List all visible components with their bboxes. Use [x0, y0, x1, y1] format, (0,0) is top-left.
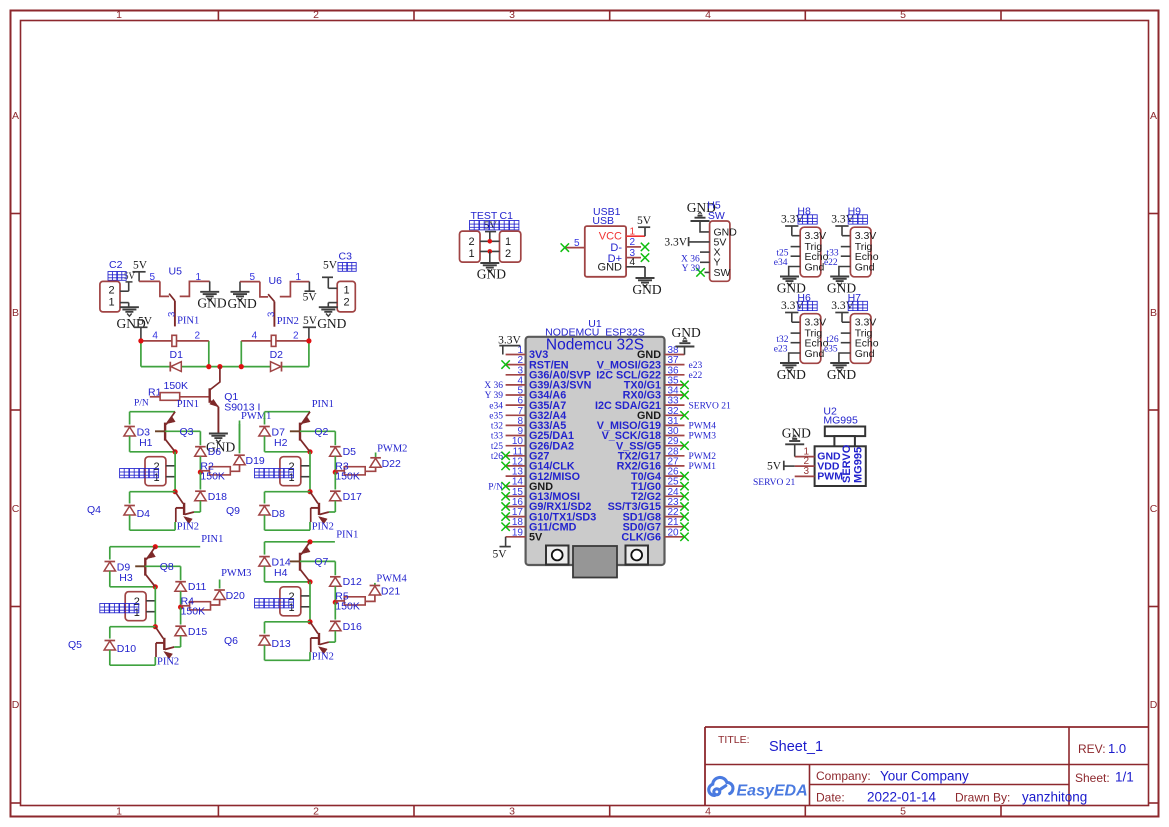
svg-text:e22: e22 — [824, 258, 838, 268]
svg-text:e23: e23 — [774, 345, 788, 355]
svg-text:PWM1: PWM1 — [689, 462, 717, 472]
svg-text:D8: D8 — [272, 508, 286, 520]
svg-text:REV:: REV: — [1078, 742, 1106, 756]
svg-text:D16: D16 — [343, 621, 362, 633]
svg-text:2: 2 — [313, 9, 319, 21]
svg-text:5V: 5V — [303, 292, 318, 304]
svg-text:2022-01-14: 2022-01-14 — [867, 790, 937, 805]
svg-text:GND: GND — [317, 316, 346, 331]
svg-text:Q9: Q9 — [226, 505, 240, 517]
svg-text:1: 1 — [196, 272, 202, 283]
svg-text:Sheet:: Sheet: — [1075, 771, 1110, 785]
svg-text:GND: GND — [197, 296, 226, 311]
svg-text:D15: D15 — [188, 626, 207, 638]
svg-text:D18: D18 — [208, 491, 227, 503]
svg-text:Gnd: Gnd — [855, 261, 875, 273]
svg-text:1: 1 — [505, 236, 511, 248]
svg-text:2: 2 — [293, 331, 299, 342]
svg-text:VCC: VCC — [599, 230, 622, 242]
svg-text:2: 2 — [343, 297, 349, 309]
svg-text:SW: SW — [708, 210, 725, 222]
svg-text:5V: 5V — [124, 271, 136, 281]
svg-text:1/1: 1/1 — [1115, 770, 1134, 785]
svg-text:EasyEDA: EasyEDA — [737, 783, 808, 800]
svg-text:GND: GND — [777, 367, 806, 382]
svg-text:D5: D5 — [343, 446, 357, 458]
svg-text:Y 39: Y 39 — [682, 264, 701, 274]
svg-text:t25: t25 — [776, 248, 788, 258]
svg-text:MG995: MG995 — [853, 447, 865, 483]
svg-text:PIN2: PIN2 — [277, 316, 299, 327]
svg-text:PWM4: PWM4 — [689, 422, 717, 432]
svg-text:PIN1: PIN1 — [336, 529, 358, 540]
svg-text:150K: 150K — [181, 605, 206, 617]
svg-text:B: B — [12, 307, 19, 319]
svg-text:PWM3: PWM3 — [221, 568, 251, 579]
svg-text:PWM4: PWM4 — [376, 574, 407, 585]
svg-text:Gnd: Gnd — [855, 348, 875, 360]
svg-text:C: C — [1150, 503, 1158, 515]
svg-text:t26: t26 — [491, 452, 503, 462]
svg-text:150K: 150K — [335, 600, 360, 612]
svg-text:SERVO 21: SERVO 21 — [753, 478, 796, 488]
svg-text:U6: U6 — [269, 275, 283, 287]
svg-text:SERVO 21: SERVO 21 — [689, 401, 732, 411]
svg-text:e34: e34 — [489, 401, 503, 411]
svg-text:5V: 5V — [133, 259, 148, 271]
svg-text:D1: D1 — [170, 349, 184, 361]
svg-text:PIN2: PIN2 — [312, 652, 334, 663]
svg-text:1: 1 — [343, 285, 349, 297]
svg-text:D6: D6 — [208, 446, 222, 458]
svg-text:5: 5 — [900, 9, 906, 21]
svg-text:t33: t33 — [491, 432, 503, 442]
svg-text:e23: e23 — [689, 361, 703, 371]
svg-text:Q6: Q6 — [224, 635, 238, 647]
svg-text:D: D — [12, 699, 20, 711]
svg-text:PIN2: PIN2 — [312, 522, 334, 533]
svg-text:t26: t26 — [827, 335, 839, 345]
svg-text:4: 4 — [252, 331, 258, 342]
svg-text:U5: U5 — [169, 266, 183, 278]
svg-text:t33: t33 — [827, 248, 839, 258]
svg-text:Q3: Q3 — [180, 426, 194, 438]
svg-text:5V: 5V — [492, 549, 507, 561]
svg-text:2: 2 — [505, 248, 511, 260]
svg-text:150K: 150K — [164, 380, 189, 392]
svg-text:t32: t32 — [491, 422, 503, 432]
svg-text:5V: 5V — [767, 460, 782, 472]
svg-text:5V: 5V — [637, 215, 652, 227]
svg-text:3.3V: 3.3V — [664, 236, 687, 248]
svg-text:TITLE:: TITLE: — [718, 734, 750, 746]
svg-text:GND: GND — [632, 282, 661, 297]
svg-text:D20: D20 — [226, 590, 245, 602]
svg-text:e22: e22 — [689, 371, 703, 381]
svg-text:H4: H4 — [274, 567, 288, 579]
svg-text:D21: D21 — [381, 586, 400, 598]
svg-text:t32: t32 — [776, 335, 788, 345]
svg-text:SW: SW — [714, 267, 731, 279]
svg-text:1: 1 — [630, 227, 636, 238]
svg-text:D: D — [1150, 699, 1158, 711]
svg-text:PWM2: PWM2 — [377, 444, 407, 455]
svg-text:Y 39: Y 39 — [485, 391, 504, 401]
svg-text:Drawn By:: Drawn By: — [955, 791, 1010, 805]
svg-text:D22: D22 — [382, 458, 401, 470]
svg-text:PWM2: PWM2 — [689, 452, 717, 462]
svg-text:GND: GND — [228, 296, 257, 311]
svg-text:5V: 5V — [138, 316, 153, 328]
svg-text:e35: e35 — [824, 345, 838, 355]
svg-text:3: 3 — [167, 312, 178, 317]
svg-text:5V: 5V — [303, 315, 318, 327]
svg-text:1: 1 — [296, 272, 302, 283]
svg-text:1.0: 1.0 — [1108, 741, 1126, 756]
svg-text:D12: D12 — [343, 576, 362, 588]
svg-text:Q2: Q2 — [314, 426, 328, 438]
svg-text:1: 1 — [116, 9, 122, 21]
svg-text:H1: H1 — [139, 437, 153, 449]
svg-text:Nodemcu 32S: Nodemcu 32S — [546, 337, 644, 354]
svg-text:PIN1: PIN1 — [201, 534, 223, 545]
svg-text:yanzhitong: yanzhitong — [1022, 790, 1087, 805]
svg-text:3.3V: 3.3V — [498, 335, 521, 347]
svg-text:GND: GND — [672, 325, 701, 340]
svg-text:t25: t25 — [491, 442, 503, 452]
svg-text:H2: H2 — [274, 437, 288, 449]
svg-text:PWM: PWM — [817, 470, 843, 482]
svg-text:Gnd: Gnd — [805, 348, 825, 360]
svg-text:2: 2 — [313, 806, 319, 818]
svg-text:19: 19 — [512, 527, 524, 538]
svg-text:4: 4 — [630, 257, 636, 268]
svg-text:5: 5 — [900, 806, 906, 818]
svg-text:Sheet_1: Sheet_1 — [769, 739, 823, 755]
svg-text:e35: e35 — [489, 412, 503, 422]
svg-text:D17: D17 — [343, 491, 362, 503]
svg-text:3: 3 — [266, 312, 277, 317]
svg-text:PIN1: PIN1 — [177, 316, 199, 327]
svg-text:B: B — [1150, 307, 1157, 319]
svg-text:Date:: Date: — [816, 791, 845, 805]
svg-text:GND: GND — [827, 367, 856, 382]
svg-text:1: 1 — [468, 248, 474, 260]
svg-text:C2: C2 — [109, 259, 123, 271]
svg-text:4: 4 — [705, 806, 711, 818]
svg-text:1: 1 — [108, 297, 114, 309]
svg-text:4: 4 — [705, 9, 711, 21]
svg-text:PIN1: PIN1 — [312, 399, 334, 410]
svg-text:GND: GND — [477, 267, 506, 282]
svg-text:D13: D13 — [272, 638, 291, 650]
svg-text:Your Company: Your Company — [880, 769, 969, 784]
svg-text:4: 4 — [152, 331, 158, 342]
svg-text:3: 3 — [509, 806, 515, 818]
svg-text:20: 20 — [668, 527, 680, 538]
svg-text:Q7: Q7 — [314, 556, 328, 568]
svg-text:D2: D2 — [270, 349, 284, 361]
svg-text:3: 3 — [803, 466, 809, 477]
svg-text:PIN1: PIN1 — [177, 399, 199, 410]
svg-text:D11: D11 — [188, 581, 207, 593]
svg-text:USB: USB — [592, 215, 614, 227]
svg-text:2: 2 — [108, 285, 114, 297]
svg-text:X 36: X 36 — [681, 254, 700, 264]
svg-text:GND: GND — [598, 262, 623, 274]
svg-text:Q5: Q5 — [68, 639, 82, 651]
svg-text:PWM1: PWM1 — [241, 411, 271, 422]
svg-text:PWM3: PWM3 — [689, 432, 717, 442]
svg-text:MG995: MG995 — [823, 415, 858, 427]
svg-text:P/N: P/N — [488, 482, 503, 492]
svg-text:PIN2: PIN2 — [177, 522, 199, 533]
svg-text:3: 3 — [509, 9, 515, 21]
svg-text:Q4: Q4 — [87, 504, 101, 516]
svg-text:A: A — [1150, 110, 1157, 122]
svg-text:5V: 5V — [529, 532, 543, 544]
svg-text:P/N: P/N — [134, 399, 149, 409]
svg-text:e34: e34 — [774, 258, 788, 268]
svg-text:SERVO: SERVO — [841, 444, 853, 483]
svg-text:5V: 5V — [323, 259, 338, 271]
svg-text:D10: D10 — [117, 643, 136, 655]
svg-text:1: 1 — [116, 806, 122, 818]
svg-text:2: 2 — [468, 236, 474, 248]
svg-text:2: 2 — [195, 331, 201, 342]
svg-text:C3: C3 — [339, 251, 353, 263]
svg-text:150K: 150K — [335, 470, 360, 482]
svg-text:2: 2 — [630, 237, 636, 248]
svg-text:D4: D4 — [137, 508, 151, 520]
svg-text:X 36: X 36 — [484, 381, 503, 391]
svg-text:C: C — [12, 503, 20, 515]
svg-text:PIN2: PIN2 — [157, 657, 179, 668]
svg-text:Company:: Company: — [816, 769, 871, 783]
svg-text:D19: D19 — [246, 455, 265, 467]
svg-text:150K: 150K — [200, 470, 225, 482]
svg-text:Q8: Q8 — [160, 561, 174, 573]
svg-text:A: A — [12, 110, 19, 122]
svg-text:CLK/G6: CLK/G6 — [621, 532, 661, 544]
svg-text:H3: H3 — [119, 572, 133, 584]
svg-text:Gnd: Gnd — [805, 261, 825, 273]
